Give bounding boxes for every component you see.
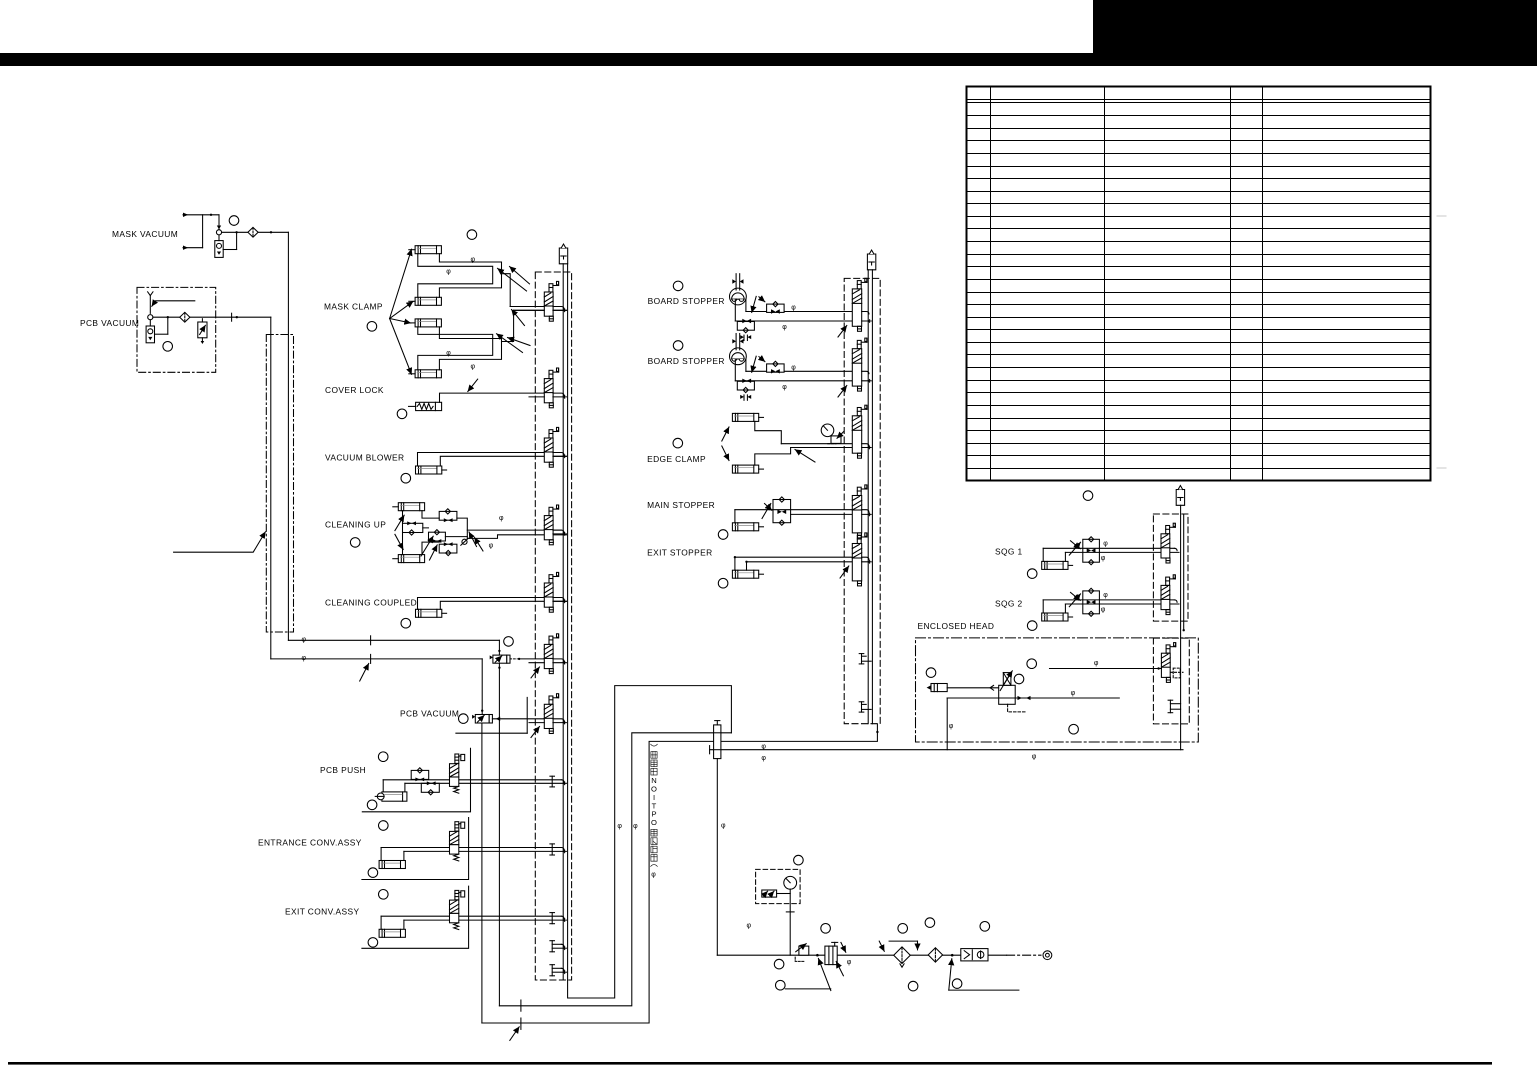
wire mask-vacuum inlet top [183,213,188,217]
pipes main stopper to valve [735,509,852,511]
svg-text:φ: φ [446,269,451,276]
header right black block [1093,0,1537,66]
wires SQG 1 [1042,548,1044,561]
pipe mask clamp to valve V1 [510,306,561,308]
cylinder pcb push [382,792,407,801]
balloon filter2 top [925,918,935,928]
pressure gauge edge clamp [821,424,834,437]
wire connector through (upper) [714,732,721,734]
silencer manifold 3 [1176,486,1184,506]
svg-text:φ: φ [1103,540,1108,547]
balloon bottom right lower [952,979,962,989]
svg-text:φ: φ [499,515,504,522]
solenoid valve A (mask vacuum pilot 3/2) [493,655,507,663]
manifold 2 supply rails [867,270,869,724]
pressure switch [762,890,777,897]
leader arrow to riser enclosure [174,532,266,552]
svg-text:φ: φ [302,636,307,643]
pipe V1 into valve [510,306,544,308]
solenoid valve B (pcb vacuum pilot 3/2) [475,715,489,724]
balloon mask clamp left [367,322,377,332]
svg-text:PCB VACUUM: PCB VACUUM [400,709,459,719]
rotary stopper actuator 2 [730,334,853,401]
svg-text:BOARD STOPPER: BOARD STOPPER [648,356,725,366]
junction + leader (coupler) [951,954,954,957]
svg-text:MASK CLAMP: MASK CLAMP [324,302,383,312]
solenoid valve main stopper (manifold 2) [852,485,867,538]
svg-text:EXIT STOPPER: EXIT STOPPER [647,547,712,557]
svg-text:ENTRANCE CONV.ASSY: ENTRANCE CONV.ASSY [258,838,362,848]
stopper pipes 1 [746,311,852,313]
wires vacuum blower to valve V3 [418,453,562,467]
balloon bottom middle [908,981,918,991]
cylinder edge clamp bottom [732,465,758,473]
pressure gauge (air prep) [784,876,797,889]
svg-text:EXIT CONV.ASSY: EXIT CONV.ASSY [285,906,360,916]
svg-text:φ: φ [302,655,307,662]
solenoid valve edge clamp (manifold 2) [852,405,867,458]
wires cleaning coupled to valve V5 [418,598,562,610]
balloon bottom left 2 [776,980,786,990]
svg-text:EDGE CLAMP: EDGE CLAMP [647,454,706,464]
assembly frame exit conv [362,886,469,948]
manifold 3 supply rails [1180,505,1182,749]
manifold outlet entrance conv outlet [551,844,553,855]
silencer manifold 2 [867,250,875,270]
solenoid valve SQG 2 (manifold 3) [1161,575,1175,615]
balloon gauge area [794,855,804,865]
svg-text:φ: φ [1101,606,1106,613]
leader arrow at BS2 valve [838,386,847,398]
solenoid valve board stopper 2 (manifold 2) [852,338,867,391]
pipes exit stopper to valve [735,556,852,558]
wire to pcb riser [190,316,271,318]
solenoid valve V4 cleaning up (manifold 1) [544,505,558,545]
diagonal leader edge clamp valve [795,450,815,463]
svg-text:PCB VACUUM: PCB VACUUM [80,318,139,328]
svg-text:φ: φ [471,364,476,371]
wire ejector to check valve [222,231,248,233]
svg-text:CLEANING UP: CLEANING UP [325,519,386,529]
pipe cleaning up to valve V4 [467,529,561,531]
svg-text:SQG 1: SQG 1 [995,547,1023,557]
svg-text:φ: φ [651,871,656,878]
table row lines [967,115,1431,117]
pipes SQG 2 to valve [1043,599,1174,601]
main supply wire y=749.7 [710,749,1183,751]
wire mask-vacuum inlet bottom [183,246,188,250]
wire connector down to air prep [716,759,718,956]
air source symbol [1043,951,1052,960]
balloon pcb push top [378,752,388,762]
solenoid valve board stopper 1 (manifold 2) [852,278,867,331]
routing wire valve B to manifold2 (inner) [482,724,878,1023]
svg-text:φ: φ [782,324,787,331]
balloon entrance bottom [368,868,378,878]
piping comb junction to valve [502,274,514,342]
solenoid valve exit conv [450,890,465,929]
cylinder exit stopper [732,570,758,578]
valve A drop line [498,663,500,1006]
manifold 2 bottom junction dot [876,731,878,733]
leader arrow at exit stopper valve [840,566,849,578]
wire valve A to manifold [510,658,517,660]
check block 2 (cleaning up) [403,523,423,532]
solenoid valve V6 pcb vacuum A (manifold 1) [544,634,558,674]
check block SQG 2 [1083,591,1100,614]
solenoid valve V2 cover lock (manifold 1) [544,368,558,408]
filter (pcb vacuum) [146,326,154,343]
leader arrow at V6 [531,667,540,678]
solenoid valve enclosed head (manifold) [1161,643,1175,683]
leader arrows SQG 2 [1069,594,1080,607]
svg-text:PCB PUSH: PCB PUSH [320,765,366,775]
pipe enclosed head to valve [1050,668,1162,670]
silencer manifold 1 [559,244,567,264]
main air line [717,954,1006,956]
balloon mask vacuum [229,216,239,226]
leader arrows SQG 1 [1069,542,1080,555]
cylinder edge clamp top [732,413,758,421]
parts table outer frame [967,87,1431,481]
check block 1 (pcb push) [411,770,429,779]
svg-text:φ: φ [1103,592,1108,599]
stopper check block 1 [767,304,785,312]
pipe stub V6 [529,662,544,664]
check valve (mask vacuum) [248,227,258,237]
svg-text:φ: φ [847,959,852,966]
check block 2 (pcb push) [421,783,439,792]
svg-text:φ: φ [1094,660,1099,667]
manifold 2 enclosure (dashed) [844,278,880,723]
wire connector through (lower) [714,749,721,751]
balloon enclosed above regulator [1027,659,1037,669]
balloon valve A [504,637,514,647]
svg-text:φ: φ [721,823,726,830]
pcb vacuum riser [270,317,272,659]
pipe stub V7 [529,722,544,724]
manifold 2 blank station 2 [861,702,863,712]
filter (mask vacuum) [215,241,223,258]
svg-text:φ: φ [791,365,796,372]
check block 4 (cleaning up) [439,544,457,553]
leader arrows main stopper [762,504,771,519]
wire to riser [258,231,288,233]
svg-text:φ: φ [782,384,787,391]
pipes edge clamp to valve [781,443,852,445]
pilot wire top [149,295,151,313]
balloon sqg1 [1027,569,1037,579]
leader arrows stopper 2 [752,356,757,372]
leader arrows edge clamp [722,427,729,441]
wire main stopper [734,510,736,523]
cylinder mask clamp 2 [415,297,441,305]
svg-text:ENCLOSED HEAD: ENCLOSED HEAD [918,621,995,631]
check block 3 (cleaning up) [429,532,446,541]
cylinder SQG 2 [1042,613,1068,621]
tick mark right of table bottom [1437,467,1446,469]
supply wire B (pcb vacuum line) [271,658,482,660]
leader arrows cleaning up [395,515,404,530]
balloon filter top [898,924,908,934]
pipes SQG 1 to valve [1043,547,1174,549]
stopper check block 2 [767,364,785,372]
cylinder entrance conv [379,861,405,869]
wire filter to line [155,333,168,335]
solenoid valve V7 pcb vacuum B (manifold 1) [544,694,558,734]
check block main stopper [773,500,791,523]
wire gauge stem [789,889,791,955]
balloon board stopper 2 [673,341,683,351]
balloon exit bottom [368,938,378,948]
blank station enclosed head manifold [1169,700,1171,713]
cylinder SQG 1 [1042,561,1068,569]
svg-text:φ: φ [446,350,451,357]
balloon enclosed head left [926,668,936,678]
wire into valve A [498,640,500,655]
balloon exit stopper [718,578,728,588]
manifold 2 blank station 1 [861,654,863,664]
svg-text:φ: φ [489,542,494,549]
svg-text:φ: φ [1032,754,1037,761]
supply wire A (mask vacuum line) [288,639,499,641]
cylinder exit conv [379,929,405,937]
wire enclosed head drop [946,698,948,750]
leader arrow at BS1 valve [838,326,847,338]
pressure switch enclosure (dashed) [756,869,801,903]
mask vacuum riser [287,232,289,640]
solenoid valve SQG 1 (manifold 3) [1161,523,1175,563]
leader arrows at comb junction [510,267,530,284]
pipes entrance conv [381,847,561,849]
svg-text:φ: φ [791,305,796,312]
wire regulator output [947,697,1119,699]
balloon below table [1083,491,1093,501]
tick mark right of table top [1437,215,1446,217]
drain mark cleaning up [462,539,467,544]
leader arrow bottom routing [510,1027,519,1041]
cylinder cleaning coupled [416,609,442,617]
balloon main stopper [718,530,728,540]
wire into valve B [481,659,483,715]
wires SQG 2 [1042,600,1044,613]
pilot valve (pcb vacuum) [198,322,207,338]
assembly frame pcb push [362,748,470,812]
balloon pcb vacuum [163,342,173,352]
wire ejector to check valve [153,316,180,318]
solenoid valve pcb push [450,754,465,793]
PCB vacuum enclosure (dash-dot box) [137,287,216,372]
manifold outlet blank station 1 [551,941,553,952]
stopper exhaust block 1 [737,322,754,331]
svg-text:MAIN STOPPER: MAIN STOPPER [647,500,715,510]
balloon edge clamp [673,438,683,448]
svg-text:φ: φ [471,257,476,264]
cylinder cleaning up top [398,503,424,511]
svg-text:φ: φ [761,755,766,762]
balloon pcb push bottom [367,800,377,810]
balloon exit top [379,890,389,900]
option branch wire [526,697,528,733]
filter 1 (air prep) [889,940,917,942]
svg-text:BOARD STOPPER: BOARD STOPPER [648,296,725,306]
wires exit stopper [734,557,736,570]
table header separator double line [967,99,1431,101]
check block SQG 1 [1083,539,1100,562]
wires cleaning up [402,511,404,524]
wire coupler to regulator [947,687,999,689]
enclosed head enclosure (dash-dot) [916,638,1199,742]
svg-text:CLEANING COUPLED: CLEANING COUPLED [325,598,417,608]
svg-text:φ: φ [1071,690,1076,697]
svg-text:φ: φ [761,743,766,750]
piping comb upper (mask clamp) [418,254,502,298]
balloon cleaning coupled [401,618,411,628]
manifold outlet PCB push outlet [551,776,553,787]
svg-text:MASK VACUUM: MASK VACUUM [112,229,178,239]
leader arrows stopper 1 [752,296,757,312]
cylinder cleaning up bottom [398,555,424,563]
manifold 1 supply rails [562,264,564,980]
balloon board stopper 1 [673,281,683,291]
regulator edge clamp [831,436,841,444]
assembly frame entrance conv [362,818,469,880]
balloon mask clamp top [467,230,477,240]
svg-text:φ: φ [1101,555,1106,562]
check block 1 (cleaning up) [439,511,457,520]
quick coupler (air prep) [961,949,988,961]
cylinder vacuum blower [416,466,442,474]
balloon enclosed regulator [1014,674,1024,684]
wires edge clamp [755,421,782,443]
balloon coupler top [980,922,990,932]
balloon enclosed bottom [1069,724,1079,734]
valve B drop line [481,723,483,1023]
manifold outlet exit conv outlet [551,913,553,924]
svg-text:O: O [651,818,657,827]
enclosed head manifold enclosure (dashed) [1153,638,1189,724]
pipes pcb push [383,779,561,781]
svg-text:φ: φ [633,823,638,830]
solenoid valve V5 cleaning coupled (manifold 1) [544,572,558,612]
manifold 1 enclosure (dashed) [535,272,571,980]
stopper pipes 2 [746,370,852,372]
svg-text:φ: φ [747,922,752,929]
svg-text:φ: φ [617,823,622,830]
manifold 3 enclosure (dashed) [1153,514,1188,621]
cylinder mask clamp 4 [415,370,441,378]
cylinder main stopper [732,523,758,531]
vertical note (board suction OPTION) [651,744,658,775]
leader arrows mask clamp [390,249,412,318]
check valve (pcb vacuum) [180,312,190,322]
regulator (air prep) [799,946,809,955]
balloon bottom left 1 [774,959,784,969]
solenoid valve V1 mask clamp (manifold 1) [544,281,558,321]
leader arrow at V7 [531,727,540,738]
piping comb lower (mask clamp) [418,327,502,370]
regulator enclosed head [999,685,1016,704]
pipe stub V2 [529,396,544,398]
routing wire valve A to connector (middle) [499,733,731,1006]
balloon sqg2 [1027,621,1037,631]
svg-text:COVER LOCK: COVER LOCK [325,385,384,395]
rotary stopper actuator 1 [730,274,853,341]
vacuum ejector (pcb) [148,315,153,320]
header top black bar [0,53,1537,66]
balloon pcb vacuum option [459,714,469,724]
bulkhead connector [714,725,721,759]
stopper exhaust block 2 [737,381,754,390]
table column lines [990,87,992,481]
tick marks bottom routing [520,1000,522,1011]
dashed port enclosed head valve [1171,671,1184,673]
junction + leader (hand valve) [816,954,819,957]
balloon entrance top [379,821,389,831]
solenoid valve exit stopper (manifold 2) [852,533,867,586]
riser enclosure (dash-dot) [266,335,293,633]
balloon cleaning up [350,538,360,548]
solenoid valve V3 vacuum blower (manifold 1) [544,427,558,467]
cylinder mask clamp 3 [415,319,441,327]
quick coupler enclosed head [931,684,947,692]
solenoid valve entrance conv [450,822,465,861]
wire valve B to manifold [492,718,544,720]
cylinder mask clamp 1 [415,246,441,254]
svg-text:VACUUM BLOWER: VACUUM BLOWER [325,453,405,463]
pipes exit conv [381,915,561,917]
routing wire manifold rail to connector (outer) [568,686,732,998]
wire filter to line [223,249,236,251]
cylinder cover lock (spring return) [416,402,442,410]
manifold outlet blank station 2 [551,965,553,976]
bottom border line [8,1062,1492,1065]
balloon cover lock [397,409,407,419]
balloon hand valve top [821,924,831,934]
balloon vacuum blower [401,473,411,483]
filter 2 (air prep) [928,948,942,962]
vacuum ejector (mask) [218,215,220,230]
svg-text:φ: φ [949,723,954,730]
wire cover lock to valve V2 [440,393,545,402]
svg-text:SQG 2: SQG 2 [995,598,1023,608]
hand valve [825,946,837,965]
